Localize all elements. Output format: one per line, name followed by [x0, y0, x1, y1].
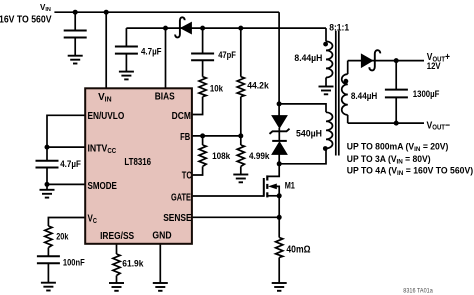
node clamp top: [277, 101, 282, 106]
inductor primary 540uH: [326, 112, 333, 148]
node vout+: [394, 58, 399, 63]
wire 540uH bottom to drain node: [279, 148, 326, 163]
wire top VIN rail: [54, 11, 279, 13]
node vout-: [394, 121, 399, 126]
wire 61.9k to ground: [116, 276, 118, 284]
wire VIN pin stub: [105, 12, 107, 89]
resistor R 40mohm: [276, 238, 283, 258]
svg-text:VIN: VIN: [40, 2, 51, 14]
resistor R 20k: [45, 226, 52, 248]
node drain: [277, 161, 282, 166]
node sense: [277, 215, 282, 220]
svg-text:VOUT−: VOUT−: [427, 120, 451, 132]
resistor R 44.2k: [237, 28, 244, 136]
svg-text:44.2k: 44.2k: [247, 81, 269, 91]
ground under 4.99k: [233, 175, 248, 183]
transformer core: [336, 31, 339, 156]
svg-text:16V TO 560V: 16V TO 560V: [0, 14, 52, 25]
node bias-pin: [163, 26, 168, 31]
resistor R 10k: [199, 77, 206, 97]
svg-text:8.44µH: 8.44µH: [351, 91, 377, 101]
wire 40mohm to ground: [278, 258, 280, 284]
wire INTVCC: [47, 146, 86, 148]
resistor R 61.9k: [113, 254, 120, 276]
svg-text:EN/UVLO: EN/UVLO: [88, 110, 125, 121]
capacitor C 4.7uF left: [36, 161, 59, 185]
wire BIAS pin stub: [165, 28, 167, 89]
svg-text:DCM: DCM: [172, 110, 192, 121]
svg-text:4.7µF: 4.7µF: [60, 158, 81, 169]
wire bias winding top: [325, 28, 327, 41]
node bias-44.2k: [238, 26, 243, 31]
svg-text:SMODE: SMODE: [88, 180, 117, 191]
wire secondary top to VOUT+: [348, 60, 424, 62]
wire EN/UVLO: [47, 115, 86, 161]
node fb-108k: [200, 133, 205, 138]
ground under 100nF: [41, 283, 56, 291]
transistor M1 MOSFET: [264, 164, 279, 198]
phase dot primary: [323, 146, 328, 151]
svg-text:540µH: 540µH: [296, 128, 322, 138]
node smode: [45, 182, 50, 187]
svg-text:GND: GND: [152, 230, 171, 241]
diode clamp (up): [272, 141, 287, 164]
capacitor C 100nF: [37, 248, 60, 283]
svg-text:47pF: 47pF: [218, 49, 236, 60]
svg-text:61.9k: 61.9k: [122, 258, 143, 268]
wire VIN rail drop to clamp: [278, 12, 280, 116]
svg-text:IREG/SS: IREG/SS: [100, 231, 134, 242]
wire IREG/SS stub: [116, 244, 118, 254]
node fb-4.99k: [238, 133, 243, 138]
svg-text:UP TO 3A (VIN = 80V): UP TO 3A (VIN = 80V): [347, 154, 431, 166]
wire VC: [48, 218, 86, 227]
ground under 61.9k: [109, 283, 124, 291]
phase dot bias winding: [323, 42, 328, 47]
node intvcc: [45, 145, 50, 150]
svg-text:UP TO 4A (VIN = 160V TO 560V): UP TO 4A (VIN = 160V TO 560V): [347, 165, 473, 177]
svg-text:GATE: GATE: [171, 191, 191, 202]
svg-text:20k: 20k: [56, 232, 69, 242]
svg-text:108k: 108k: [212, 150, 230, 160]
ground under CIN: [68, 56, 83, 64]
svg-text:10k: 10k: [210, 83, 223, 94]
ground under C 4.7uF bias: [119, 72, 134, 80]
wire secondary bottom to VOUT-: [348, 122, 424, 124]
wire GATE: [192, 195, 264, 197]
ground under bias winding: [319, 87, 334, 95]
node bias-47pF: [200, 26, 205, 31]
ground under 40mohm: [272, 283, 287, 291]
svg-text:UP TO 800mA (VIN = 20V): UP TO 800mA (VIN = 20V): [347, 141, 449, 153]
phase dot secondary: [344, 79, 349, 84]
node rail-vinpin: [104, 10, 109, 15]
svg-text:4.99k: 4.99k: [249, 150, 270, 160]
IC U1 LT8316: [85, 88, 192, 244]
inductor bias winding 8.44uH: [326, 41, 333, 77]
diode zener clamp (down): [270, 116, 290, 141]
wire 10k to DCM: [192, 97, 203, 115]
wire BIAS line: [126, 27, 326, 29]
svg-text:100nF: 100nF: [63, 257, 85, 268]
wire bias winding to ground: [325, 78, 327, 87]
svg-text:SENSE: SENSE: [163, 212, 191, 223]
wire SENSE: [192, 216, 280, 218]
svg-text:8.44µH: 8.44µH: [294, 53, 322, 63]
capacitor C 1300uF: [385, 61, 408, 124]
svg-text:40mΩ: 40mΩ: [286, 244, 311, 255]
wire FB line: [192, 135, 241, 137]
ground under C left: [40, 184, 55, 197]
svg-text:8316 TA01a: 8316 TA01a: [403, 289, 433, 295]
svg-text:4.7µF: 4.7µF: [141, 46, 162, 57]
svg-text:12V: 12V: [427, 61, 441, 72]
capacitor C 47pF: [191, 28, 214, 77]
resistor R 4.99k: [237, 136, 244, 175]
wire clamp node to 540uH top: [279, 104, 326, 112]
wire M1 source to sense node: [278, 196, 280, 238]
wire SMODE: [47, 183, 86, 185]
ground under GND pin: [153, 283, 168, 291]
diode D bias (points left, curly cathode): [175, 17, 191, 37]
svg-text:M1: M1: [285, 181, 296, 191]
wire GND pin stub: [159, 244, 161, 283]
capacitor CIN input: [64, 12, 87, 56]
svg-text:1300µF: 1300µF: [413, 88, 440, 99]
svg-text:FB: FB: [180, 131, 190, 142]
node rail-cap: [73, 10, 78, 15]
svg-text:TC: TC: [182, 169, 193, 180]
inductor secondary 8.44uH: [342, 61, 348, 124]
svg-text:LT8316: LT8316: [124, 156, 151, 167]
node dots: [45, 10, 399, 220]
resistor R 108k: [192, 136, 207, 175]
node source: [277, 193, 282, 198]
diode D output (points right, curly cathode): [361, 50, 380, 70]
capacitor C 4.7uF bias: [115, 28, 138, 72]
svg-text:BIAS: BIAS: [155, 91, 175, 102]
svg-text:8:1:1: 8:1:1: [329, 22, 349, 32]
